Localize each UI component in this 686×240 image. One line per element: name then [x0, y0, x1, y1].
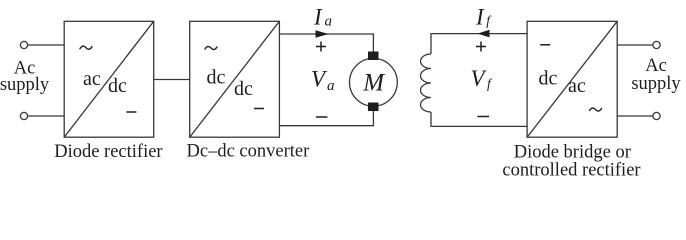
motor M circle	[350, 58, 398, 106]
svg-text:M: M	[362, 70, 385, 97]
svg-text:controlled rectifier: controlled rectifier	[502, 161, 640, 181]
wire armature top	[279, 34, 373, 52]
svg-text:dc: dc	[539, 68, 558, 90]
wire right bottom	[617, 115, 653, 117]
field inductor coil	[421, 54, 432, 112]
wire field bottom	[431, 112, 527, 126]
svg-text:V: V	[311, 66, 328, 91]
wire armature bottom	[279, 111, 373, 126]
tilde U2	[205, 46, 217, 49]
diode rectifier block U1	[64, 21, 154, 137]
svg-text:f: f	[486, 13, 492, 28]
terminal left bottom	[20, 112, 27, 119]
tilde U3	[590, 108, 602, 111]
svg-text:f: f	[487, 76, 493, 91]
dc-dc converter block U2	[190, 21, 280, 137]
wire right top	[617, 44, 653, 46]
svg-text:dc: dc	[207, 67, 226, 89]
wire U1 to U2	[154, 79, 190, 81]
terminal right top	[653, 41, 660, 48]
terminal left top	[20, 41, 27, 48]
plus Vf	[476, 46, 486, 48]
svg-text:Diode rectifier: Diode rectifier	[54, 142, 162, 162]
svg-text:dc: dc	[234, 78, 253, 100]
brush top	[368, 52, 379, 61]
svg-text:supply: supply	[0, 75, 50, 95]
minus Vf	[477, 116, 489, 118]
svg-text:I: I	[313, 5, 323, 30]
brush bottom	[368, 103, 379, 112]
minus U1	[126, 111, 136, 113]
svg-text:ac: ac	[83, 68, 101, 90]
wire left bottom	[28, 115, 65, 117]
svg-text:dc: dc	[108, 75, 127, 97]
arrow Ia	[316, 30, 329, 38]
svg-text:a: a	[325, 14, 333, 30]
minus U2	[254, 108, 264, 110]
svg-text:ac: ac	[568, 75, 586, 97]
minus U3	[540, 44, 550, 46]
wire field top	[431, 34, 527, 54]
svg-text:V: V	[471, 66, 488, 91]
svg-text:Ac: Ac	[645, 56, 667, 76]
minus Va	[316, 116, 328, 118]
arrow If	[478, 30, 490, 38]
wire left top	[28, 44, 65, 46]
svg-text:I: I	[475, 5, 485, 30]
svg-text:Diode bridge or: Diode bridge or	[514, 143, 631, 163]
terminal right bottom	[653, 112, 660, 119]
tilde U1	[80, 46, 92, 49]
svg-text:supply: supply	[631, 74, 681, 94]
controlled rectifier block U3	[527, 21, 617, 137]
svg-text:a: a	[327, 78, 335, 94]
plus Va	[316, 46, 326, 48]
svg-text:Dc–dc converter: Dc–dc converter	[187, 142, 310, 162]
